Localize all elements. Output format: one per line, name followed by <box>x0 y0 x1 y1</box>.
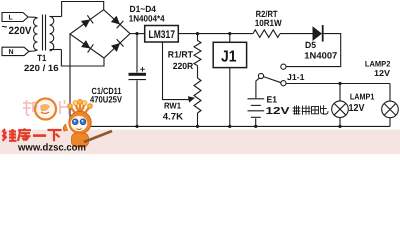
svg-text:E1: E1 <box>267 95 278 105</box>
bridge rectifier diamond <box>70 10 130 58</box>
wire J1 top lead <box>229 34 231 43</box>
wire L to primary <box>28 17 38 18</box>
capacitor C1 <box>129 67 147 79</box>
watermark seal circle <box>35 99 56 120</box>
wire battery to rail <box>255 118 257 126</box>
watermark mascot body <box>63 124 112 147</box>
diode D1 (top-left edge) <box>81 15 93 27</box>
svg-text:1N4004*4: 1N4004*4 <box>129 13 165 23</box>
wire LAMP2 top lead <box>389 84 391 102</box>
relay contact J1-1 common <box>258 73 263 78</box>
svg-text:RW1: RW1 <box>164 101 181 111</box>
wire LAMP1 top lead <box>339 84 341 101</box>
svg-text:www.dzsc.com: www.dzsc.com <box>17 143 86 154</box>
lamp LAMP2 <box>382 101 399 118</box>
watermark mascot bulbs <box>68 99 93 114</box>
svg-text:~: ~ <box>2 22 8 33</box>
svg-text:R1/RT: R1/RT <box>168 50 194 60</box>
wire N to primary <box>29 50 38 52</box>
battery E1 <box>248 99 265 118</box>
wire C1 bottom to rail <box>136 80 138 126</box>
transformer T1 secondary winding <box>50 17 54 51</box>
wire J1 bottom lead to rail <box>229 68 231 127</box>
watermark mascot head <box>69 111 91 133</box>
wire LM317 output rail <box>178 33 253 35</box>
node J1 top <box>228 32 231 35</box>
label 铅酸电池 (pseudo glyphs) <box>293 106 328 115</box>
svg-text:220V: 220V <box>9 25 32 37</box>
svg-text:10R1W: 10R1W <box>255 18 282 28</box>
diode D5 <box>313 25 324 42</box>
wire D5 to upper contact <box>286 34 341 67</box>
svg-text:220R: 220R <box>173 61 194 71</box>
relay contact J1-1 upper <box>281 64 286 69</box>
watermark pink band <box>0 130 400 154</box>
terminal L <box>2 13 28 22</box>
wire secondary bottom to bridge bottom <box>50 50 105 67</box>
wire LAMP1 bottom lead <box>339 118 341 127</box>
transformer T1 primary winding <box>34 18 38 50</box>
wire C1 branch top <box>136 34 138 73</box>
potentiometer RW1 <box>194 78 201 113</box>
diode D4 (bottom-right edge) <box>111 39 124 52</box>
node J1 bottom <box>228 125 231 128</box>
watermark faded seal text 片 <box>60 100 69 115</box>
node C1 top <box>135 32 138 35</box>
node battery bottom <box>254 125 257 128</box>
svg-text:470U25V: 470U25V <box>90 94 122 104</box>
node R1 top <box>196 32 199 35</box>
svg-text:T1: T1 <box>37 53 46 63</box>
op-amp regulator U1 LM317 box <box>145 26 179 43</box>
node C1 bottom <box>135 125 138 128</box>
wire bridge minus corner to ground rail <box>69 34 71 126</box>
wire R1 to RW1 <box>197 66 199 78</box>
wire lower contact to lamp rail <box>286 83 390 85</box>
svg-text:J1: J1 <box>221 49 237 66</box>
svg-text:12V: 12V <box>374 68 390 78</box>
wire RW1 bottom to rail <box>197 113 199 126</box>
terminal N <box>2 47 29 56</box>
watermark faded seal text 找 <box>23 100 38 115</box>
wire LM317 ADJ pin <box>163 42 189 100</box>
diode D2 (top-right edge) <box>111 16 123 29</box>
diode D3 (bottom-left edge) <box>81 40 93 52</box>
svg-text:N: N <box>9 49 14 56</box>
relay contact J1-1 lower <box>281 81 286 86</box>
svg-text:LAMP1: LAMP1 <box>350 92 375 102</box>
svg-text:12V: 12V <box>349 103 365 114</box>
resistor R1 <box>194 34 201 66</box>
transformer T1 core <box>43 15 46 51</box>
lamp LAMP1 <box>332 101 349 118</box>
svg-text:L: L <box>9 15 14 22</box>
resistor R2 <box>253 30 280 38</box>
svg-text:220 / 16: 220 / 16 <box>24 63 59 73</box>
node LAMP1 top <box>338 82 341 85</box>
wiper arrow of RW1 <box>188 96 195 102</box>
wire LAMP2 bottom lead <box>389 118 391 127</box>
node LAMP1 bottom <box>338 125 341 128</box>
svg-text:4.7K: 4.7K <box>163 111 183 122</box>
relay coil J1 box <box>213 42 246 67</box>
switch arm J1-1 <box>264 77 282 83</box>
watermark text 维库一下 (pseudo glyphs) <box>3 128 62 141</box>
svg-text:1N4007: 1N4007 <box>304 50 337 60</box>
svg-text:12V: 12V <box>266 106 290 117</box>
svg-text:D5: D5 <box>305 40 316 50</box>
wire bridge plus to LM317 <box>130 33 145 35</box>
wire common to battery <box>256 78 259 98</box>
svg-text:J1-1: J1-1 <box>287 72 305 82</box>
ground rail <box>70 125 390 127</box>
node RW1 bottom <box>196 125 199 128</box>
svg-text:LM317: LM317 <box>149 29 176 41</box>
wire secondary top to bridge top <box>50 2 104 17</box>
wire R2 to D5 <box>280 33 313 35</box>
